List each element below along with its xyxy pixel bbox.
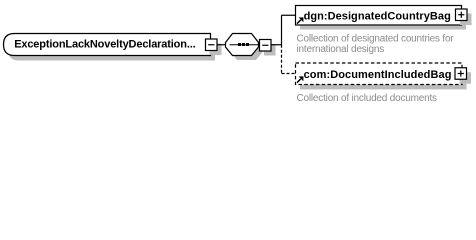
- plus sign: [458, 12, 464, 18]
- expand box (minus) on sequence shadow: [264, 44, 276, 56]
- element com:DocumentIncludedBag shadow: [300, 68, 467, 89]
- sequence compositor shadow: [230, 38, 263, 60]
- expand box (plus) on dgn shadow: [460, 14, 472, 26]
- svg-text:international designs: international designs: [297, 44, 385, 55]
- wire: element to sequence: [217, 44, 226, 46]
- svg-text:dgn:DesignatedCountryBag: dgn:DesignatedCountryBag: [304, 11, 451, 23]
- expand box (minus) on sequence: [260, 40, 272, 52]
- sequence dot 2: [242, 43, 245, 46]
- wire: junction vertical dashed (down to second child): [281, 45, 283, 74]
- minus sign: [262, 44, 268, 46]
- element com:DocumentIncludedBag box: [296, 63, 463, 85]
- sequence dot 1: [238, 43, 241, 46]
- expand box (plus) on com shadow: [460, 72, 472, 84]
- wire: junction to dgn:DesignatedCountryBag: [282, 14, 296, 16]
- sequence dot 3: [246, 43, 249, 46]
- wire: junction to com:DocumentIncludedBag (dashed): [282, 73, 296, 75]
- reference arrow icon (com): [297, 76, 303, 82]
- svg-text:Collection of included documen: Collection of included documents: [297, 93, 438, 104]
- sequence compositor octagon: [226, 34, 259, 56]
- minus sign: [208, 44, 214, 46]
- svg-text:com:DocumentIncludedBag: com:DocumentIncludedBag: [304, 69, 452, 81]
- element dgn:DesignatedCountryBag box: [296, 6, 462, 26]
- expand box (plus) on dgn: [456, 9, 468, 21]
- expand box (minus) on main element: [206, 39, 218, 51]
- expand box (minus) on main element shadow: [210, 44, 222, 56]
- sequence inner line: [230, 44, 259, 46]
- element ExceptionLackNoveltyDeclaration shadow: [8, 39, 215, 61]
- wire: junction vertical solid (up to first child): [281, 15, 283, 45]
- plus sign: [458, 70, 464, 76]
- svg-text:ExceptionLackNoveltyDeclaratio: ExceptionLackNoveltyDeclaration...: [14, 38, 195, 50]
- wire: sequence to junction: [271, 44, 282, 46]
- element ExceptionLackNoveltyDeclaration box: [4, 34, 211, 56]
- element dgn:DesignatedCountryBag shadow: [300, 10, 466, 30]
- reference arrow icon (dgn): [297, 17, 303, 23]
- expand box (plus) on com: [455, 68, 467, 80]
